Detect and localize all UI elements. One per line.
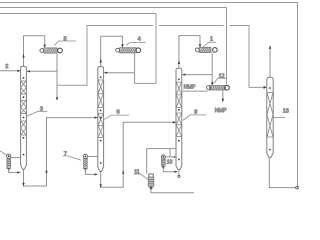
wire column T2 side draw to cooler E7 bbox=[88, 156, 98, 158]
wire column T2 bottoms to column T3 feed bbox=[100, 121, 177, 188]
wire feed line 2 into column T1 bbox=[0, 70, 21, 72]
wire condenser E5 outlet / reflux to column T1 bbox=[27, 53, 59, 100]
condenser E1 shell bbox=[195, 47, 217, 52]
wire cooler E4 return to column T1 bbox=[9, 169, 21, 174]
wire column T2 vapor line to condenser E6 bbox=[100, 36, 124, 66]
wire cooler E7 return to column T2 bbox=[85, 169, 97, 176]
cooler E7 at column T2 bottom bbox=[83, 154, 87, 172]
leader to cooler E4 bbox=[0, 151, 7, 155]
wire column T3 side loop to filter E11 bbox=[147, 149, 176, 174]
wire column T4 bottoms to top line A bbox=[269, 157, 298, 189]
label 3 bbox=[27, 107, 48, 117]
cooler E10 at column T3 bbox=[161, 155, 165, 170]
svg-text:7: 7 bbox=[64, 151, 67, 157]
svg-text:10: 10 bbox=[167, 160, 173, 166]
label 4 (condenser E6) bbox=[126, 36, 146, 45]
arrow feed into column 4 bbox=[264, 86, 267, 89]
cooler E4 at column T1 bottom bbox=[7, 154, 11, 172]
wire condenser E6 outlet / reflux to column T2 bbox=[104, 53, 135, 84]
wire top line A bbox=[0, 3, 298, 188]
column T1 packing section 1 bbox=[21, 81, 26, 94]
wire NMP product out of condenser E12 bbox=[222, 90, 224, 102]
label 7 bbox=[63, 151, 81, 160]
column T4 internals bbox=[267, 93, 273, 138]
column T2 packing section 2 bbox=[98, 113, 103, 137]
column T1 packing section 3 bbox=[21, 121, 26, 135]
label 1 (condenser E1) bbox=[203, 36, 216, 47]
wire NMP wash feed into column T3 bbox=[182, 90, 208, 92]
svg-text:1: 1 bbox=[210, 36, 213, 42]
column T2 distributor dots bbox=[100, 76, 102, 164]
column T1 packing section 2 bbox=[21, 101, 26, 114]
wire column T1 bottoms to column T2 feed bbox=[22, 116, 97, 186]
label NMP feed bbox=[184, 84, 196, 90]
svg-text:NMP: NMP bbox=[215, 108, 227, 114]
label 10 bbox=[167, 160, 173, 166]
wire condenser E1 outlet / reflux to column T3 / to condenser E12 bbox=[182, 53, 213, 86]
label 2 bbox=[5, 64, 8, 70]
condenser E12 shell bbox=[207, 85, 230, 90]
label 5 bbox=[54, 36, 76, 45]
column T4 nozzle dots bbox=[269, 87, 271, 150]
svg-text:2: 2 bbox=[5, 64, 8, 70]
label 6 (column T2) bbox=[104, 110, 129, 120]
wire filter E11 discharge bbox=[151, 190, 194, 193]
wire transfer line D column 1 distillate to column 4 bbox=[57, 26, 266, 88]
column T1 (first rectifying column) shell bbox=[21, 66, 27, 169]
wire column T1 side draw to cooler E4 bbox=[11, 157, 21, 159]
column T2 packing section 1 bbox=[98, 80, 103, 108]
label 13 bbox=[273, 108, 289, 117]
wire column T1 vapor line to condenser E5 bbox=[22, 36, 46, 67]
svg-text:13: 13 bbox=[283, 108, 289, 114]
wire top line C from column 2 distillate bbox=[0, 14, 156, 84]
wire column T4 vent line bbox=[269, 45, 271, 77]
column T3 packing section 1 bbox=[176, 82, 181, 107]
column T3 packing section 2 bbox=[176, 113, 181, 137]
column T1 distributor dots bbox=[23, 77, 25, 156]
label NMP product bbox=[215, 108, 227, 114]
wire top line B to condenser 12 bbox=[0, 8, 227, 85]
condenser E5 shell bbox=[40, 48, 62, 53]
label 11 bbox=[134, 169, 148, 179]
filter E11 bbox=[148, 174, 154, 190]
column T4 (NMP recovery column) shell bbox=[267, 77, 273, 157]
label 9 (column T3) bbox=[183, 110, 206, 121]
column T3 (third rectifying column) shell bbox=[176, 68, 182, 169]
label 12 bbox=[214, 73, 227, 83]
svg-text:NMP: NMP bbox=[184, 84, 196, 90]
column T3 distributor dots bbox=[178, 79, 180, 161]
condenser E6 shell bbox=[116, 48, 141, 53]
wire column T3 vapor line to condenser E1 bbox=[178, 36, 202, 69]
svg-text:4: 4 bbox=[138, 36, 141, 42]
wire column T3 bottoms outlet bbox=[178, 170, 180, 178]
column T2 (second rectifying column) shell bbox=[98, 67, 104, 172]
svg-text:11: 11 bbox=[134, 169, 139, 175]
wire cooler E10 connections bbox=[163, 149, 177, 173]
